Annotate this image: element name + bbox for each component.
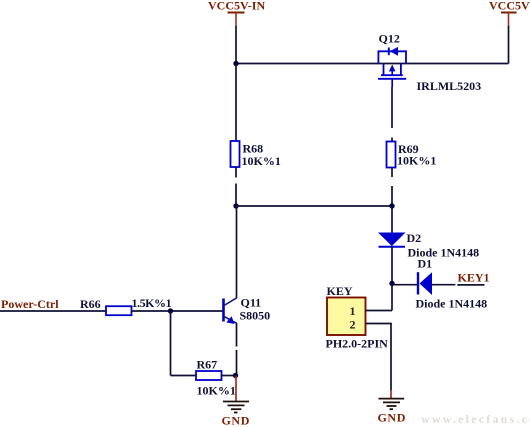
wire mid horizontal (236, 205, 392, 207)
svg-text:VCC5V-IN: VCC5V-IN (208, 0, 265, 13)
junction key node (389, 281, 394, 286)
resistor R66 (80, 296, 172, 315)
svg-text:VCC5V: VCC5V (489, 0, 530, 13)
ground stem under KEY (390, 390, 392, 398)
net label KEY1 (457, 271, 489, 285)
svg-text:www.elecfans.com: www.elecfans.com (421, 412, 530, 426)
wire to R67 left (171, 375, 197, 377)
svg-text:Power-Ctrl: Power-Ctrl (1, 297, 59, 311)
svg-text:Q12: Q12 (379, 32, 400, 46)
svg-text:Diode 1N4148: Diode 1N4148 (416, 297, 488, 311)
svg-text:D2: D2 (407, 231, 422, 245)
svg-text:R66: R66 (80, 297, 101, 311)
transistor Q12 (P-MOSFET) (378, 32, 481, 94)
diode D2 (378, 231, 479, 260)
wire key node down to pin1 (391, 284, 393, 311)
svg-text:R67: R67 (197, 358, 218, 372)
junction at VCC5V-IN rail (233, 61, 238, 66)
wire pin1 (366, 310, 393, 312)
svg-text:GND: GND (222, 414, 250, 427)
svg-text:KEY1: KEY1 (458, 271, 490, 285)
svg-text:S8050: S8050 (240, 309, 271, 323)
wire VCC5V stem down to rail corner (508, 26, 510, 64)
svg-text:2: 2 (350, 318, 356, 332)
wire base node down to R67 row (170, 311, 172, 376)
wire R66 to base junction (132, 310, 223, 312)
wire pin2 (366, 324, 392, 391)
wire gate lead down to R69 (391, 87, 393, 142)
wire VCC5V-IN stem down to top rail (235, 26, 237, 64)
wire D1 to KEY1 (432, 284, 455, 286)
wire from R68 down to mid junction (235, 167, 237, 206)
wire emitter down (236, 323, 238, 376)
transistor Q11 (224, 296, 271, 325)
svg-text:IRLML5203: IRLML5203 (417, 79, 482, 93)
wire key node to D1 (392, 284, 418, 286)
ground GND under Q11 (222, 402, 250, 427)
svg-text:1: 1 (350, 304, 356, 318)
ground stem under Q11 (235, 376, 237, 402)
junction mid left (233, 203, 238, 208)
junction at base node (168, 308, 173, 313)
power port VCC5V-IN (208, 0, 265, 27)
wire top rail horizontal (236, 63, 509, 65)
wire R67 right to emitter node (222, 375, 237, 377)
resistor R69 (387, 142, 437, 168)
connector KEY PH2.0-2PIN (326, 284, 389, 351)
wire from rail down to R68 (235, 64, 237, 142)
ground GND under KEY (378, 399, 406, 425)
junction at emitter/R67 node (233, 373, 238, 378)
junction mid right (389, 203, 394, 208)
svg-text:GND: GND (378, 411, 406, 425)
wire collector drop to Q11 (236, 206, 238, 298)
svg-text:PH2.0-2PIN: PH2.0-2PIN (326, 337, 389, 351)
resistor R67 (196, 358, 236, 398)
svg-text:10K%1: 10K%1 (397, 154, 436, 168)
svg-text:1.5K%1: 1.5K%1 (132, 296, 172, 310)
svg-text:10K%1: 10K%1 (242, 154, 281, 168)
svg-text:D1: D1 (418, 257, 433, 271)
wire down to D2 (391, 206, 393, 233)
diode D1 (416, 257, 488, 311)
power port VCC5V (489, 0, 530, 27)
svg-text:Q11: Q11 (241, 296, 262, 310)
resistor R68 (231, 141, 281, 168)
wire R69 down to mid junction right (391, 168, 393, 207)
svg-text:10K%1: 10K%1 (197, 384, 236, 398)
svg-text:KEY: KEY (327, 284, 353, 298)
wire D2 down to key junction (391, 247, 393, 284)
wire Power-Ctrl to R66 (0, 310, 106, 312)
